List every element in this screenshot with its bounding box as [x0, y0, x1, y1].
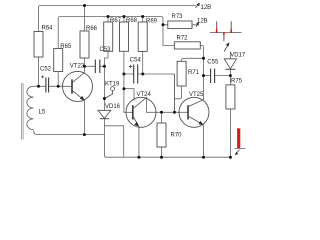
wire top rail [39, 6, 196, 8]
svg-text:12B: 12B [201, 5, 212, 11]
junction C54 right / R69 lead [141, 73, 144, 76]
junction bottom rail / VT24 emitter [137, 156, 140, 159]
junction R65 / base wire [57, 85, 60, 88]
capacitor C54 [134, 65, 138, 84]
wire VD16 branch vertical [104, 66, 106, 157]
junction R71 top / R72 lead [202, 57, 205, 60]
transistor VT24 [126, 97, 156, 127]
svg-text:C52: C52 [40, 66, 52, 72]
svg-text:KT19: KT19 [105, 81, 120, 87]
wire VT24 collector out [147, 97, 189, 112]
wire R64 bottom lead [38, 57, 40, 86]
svg-text:R65: R65 [60, 44, 72, 50]
capacitor C52 [46, 78, 49, 93]
wire R66 bottom to VT23 collector [84, 58, 86, 73]
wire R68 node down to VT24 base [124, 74, 133, 112]
junction C55 right / VD17 / R75 [229, 74, 232, 77]
junction R64 / base wire [37, 85, 40, 88]
junction bottom rail / VT25 emitter [202, 156, 205, 159]
junction VT23 emitter / L5 wire [83, 133, 86, 136]
junction VT24 collector step [122, 87, 125, 90]
oscillogram top-right [210, 21, 242, 41]
junction KT19 stem [103, 97, 106, 100]
svg-text:12B: 12B [197, 18, 208, 24]
wire VD16 jog to rail [104, 126, 123, 157]
resistor R67 [104, 22, 113, 51]
resistor R71 [177, 61, 186, 86]
wire VT25 base junction [174, 74, 176, 112]
wire VT24 collector step [124, 89, 134, 101]
wire R75 top lead [229, 76, 231, 85]
arrow VD17 emission [224, 42, 229, 51]
wire base wire left (L5 top / C52 / R65 / VT23 base) [34, 85, 73, 87]
resistor R64 [34, 32, 43, 58]
svg-text:R64: R64 [42, 26, 54, 32]
svg-text:C53: C53 [100, 47, 112, 53]
inductor L5 [27, 86, 34, 129]
svg-text:R69: R69 [146, 19, 158, 25]
wire C55 horizontal [204, 75, 231, 77]
wire R67 bottom lead [104, 17, 108, 67]
junction bottom rail / R75 [229, 156, 232, 159]
wire bottom rail [106, 156, 230, 158]
wire R68 bottom lead [123, 17, 125, 75]
resistor R70 [157, 123, 166, 147]
wire R65 top lead [57, 19, 59, 49]
junction C53 / R67 / VD16 node [103, 65, 106, 68]
wire R75 bottom lead [229, 109, 231, 157]
diode VD17 [224, 59, 236, 70]
wire R66 top lead to top rail [84, 6, 86, 32]
wire VD17 to C55 node [229, 70, 231, 76]
junction bottom rail / R70 [160, 156, 163, 159]
resistor R75 [226, 85, 235, 109]
capacitor C55 [211, 69, 215, 84]
wire R70 bottom lead [161, 147, 163, 157]
transistor VT23 [63, 71, 93, 101]
power arrow 12V second [196, 22, 199, 27]
wire R73 right lead to 12V arrow [192, 24, 196, 26]
oscillogram bottom-right pulse [235, 128, 246, 155]
wire VD17 top stub [229, 52, 231, 59]
svg-text:R71: R71 [188, 70, 200, 76]
core L5 [22, 83, 24, 140]
wire R71 top lead [182, 58, 204, 61]
svg-text:VD17: VD17 [230, 53, 246, 59]
wire R71 bottom lead [175, 86, 182, 99]
junction C54 left / R68 lead [122, 73, 125, 76]
wire second rail [58, 17, 163, 25]
wire VT25 emitter drop [203, 125, 205, 157]
junction C55 left node [202, 74, 205, 77]
wire R65 bottom lead [57, 72, 59, 87]
svg-text:VT23: VT23 [70, 64, 85, 70]
resistor R65 [54, 49, 63, 72]
wire node down to VT25 collector [203, 76, 205, 100]
wire R70 top lead [161, 112, 163, 123]
junction VT25 base riser [173, 111, 176, 114]
wire R64 top lead [38, 8, 40, 32]
svg-text:C54: C54 [130, 57, 142, 63]
wire R72 right lead [200, 45, 203, 58]
wire VT23 emitter drop [83, 100, 85, 134]
junction rail2 / R69 [141, 15, 144, 18]
svg-text:VT25: VT25 [189, 92, 204, 98]
resistor R72 [174, 42, 200, 49]
svg-text:R70: R70 [171, 133, 183, 139]
svg-text:VD16: VD16 [105, 104, 121, 110]
svg-text:R67: R67 [110, 18, 122, 24]
junction top rail / R66-VT23 riser [83, 4, 86, 7]
svg-text:R73: R73 [172, 14, 184, 20]
svg-text:R68: R68 [126, 18, 138, 24]
junction rail2 / R68 [122, 15, 125, 18]
svg-text:L5: L5 [39, 110, 46, 116]
wire C54 node to VT25 base riser [143, 74, 175, 112]
svg-text:R66: R66 [86, 26, 98, 32]
wire C53 right to R67/VD16 node [100, 65, 105, 67]
junction rail2 / R67 [107, 15, 110, 18]
wire VT24 emitter drop [138, 126, 140, 157]
resistor R73 [168, 21, 192, 29]
svg-text:VT24: VT24 [137, 92, 152, 98]
wire rail2 corner to R73 node [163, 24, 168, 26]
wire L5 bottom wire [34, 131, 105, 135]
resistor R66 [80, 31, 89, 58]
capacitor C53 [95, 60, 100, 74]
diode VD16 [98, 110, 111, 118]
svg-text:R72: R72 [177, 36, 189, 42]
wire node down C55 junction [203, 58, 205, 75]
junction R73 tap [162, 23, 165, 26]
resistor R69 [138, 22, 147, 51]
wire R69 leads [142, 17, 144, 75]
svg-text:C55: C55 [207, 60, 219, 66]
wire collector node to C53 [85, 65, 96, 67]
svg-text:R75: R75 [231, 78, 243, 84]
test point KT19 [104, 87, 114, 99]
resistor R68 [120, 22, 129, 51]
wire R73 node down to R72 [163, 25, 174, 46]
junction VT24 collector / R70 [160, 111, 163, 114]
transistor VT25 [179, 97, 209, 127]
junction VT23 collector / C53 wire [83, 65, 86, 68]
power arrow 12V top [196, 3, 200, 8]
wire C54 left wire [124, 73, 143, 75]
